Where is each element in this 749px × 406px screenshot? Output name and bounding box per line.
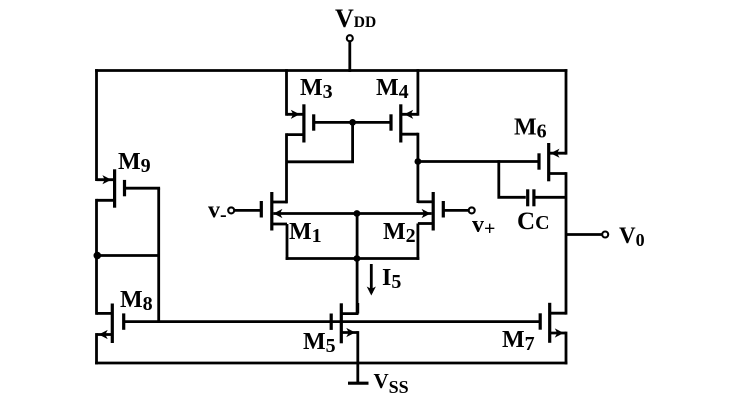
transistor M1 [260, 201, 263, 218]
svg-text:M4: M4 [376, 75, 409, 103]
svg-text:M9: M9 [118, 149, 151, 177]
transistor M4 [401, 113, 418, 116]
svg-text:M5: M5 [303, 329, 336, 357]
svg-text:v-: v- [208, 198, 227, 227]
wire CC left tap [499, 160, 526, 197]
wire M3-M4 gate line [314, 121, 391, 124]
terminal VDD [347, 35, 353, 41]
wire left rail mid [95, 199, 98, 315]
wire M4 source drop [416, 69, 419, 116]
wire left rail lower [95, 333, 98, 364]
terminal v+ [469, 207, 475, 213]
svg-text:CC: CC [517, 208, 550, 235]
junction dot left rail [94, 252, 102, 260]
transistor M2 [442, 201, 445, 218]
transistor M7 [550, 312, 566, 315]
terminal VSS bar [348, 382, 369, 385]
wire right rail lower [565, 332, 568, 365]
svg-text:M3: M3 [300, 75, 333, 103]
svg-text:v+: v+ [472, 212, 495, 240]
svg-text:VDD: VDD [335, 4, 376, 33]
transistor M6 [549, 152, 566, 155]
wire CC right lead [536, 196, 567, 199]
svg-text:V0: V0 [619, 223, 645, 250]
wire VDD stub [348, 41, 351, 72]
wire right rail upper [565, 69, 568, 155]
wire M9 gate drop [157, 188, 160, 323]
current arrow I5 [370, 264, 373, 293]
wire M1-M2 bulk line [274, 212, 432, 215]
capacitor CC [526, 189, 529, 206]
wire tail drop [356, 214, 359, 316]
transistor M9 [97, 178, 115, 181]
svg-text:I5: I5 [382, 265, 401, 293]
wire M3/M1 drain [285, 133, 288, 203]
wire M3 source drop [285, 69, 288, 116]
junction dot M4 drain [415, 158, 422, 165]
wire V0 lead [566, 233, 602, 236]
junction dot tail upper [354, 210, 361, 217]
terminal V0 [602, 232, 608, 238]
wire diff-pair source bus [286, 257, 420, 260]
transistor M5 [341, 312, 358, 315]
wire gate line to M6 [418, 160, 540, 163]
svg-text:M1: M1 [289, 219, 322, 247]
wire M3 diode tie [287, 122, 353, 161]
transistor M3 [287, 113, 304, 116]
svg-text:M2: M2 [383, 219, 416, 247]
wire left rail upper [95, 69, 98, 181]
svg-text:VSS: VSS [374, 369, 409, 397]
svg-text:M6: M6 [514, 115, 547, 143]
junction dot tail lower [354, 255, 361, 262]
junction dot M3-M4 gates [349, 119, 356, 126]
wire M9 gate-drain tie [97, 254, 159, 257]
transistor M8 [97, 312, 113, 315]
wire M4/M2 drain [416, 133, 419, 203]
wire bias gate line [124, 320, 541, 323]
wire VDD top rail [95, 69, 567, 72]
svg-text:M8: M8 [120, 287, 153, 315]
wire right rail mid [565, 172, 568, 315]
wire M5 source to VSS [356, 331, 359, 384]
wire bottom rail [95, 362, 567, 365]
terminal v- [228, 207, 234, 213]
svg-text:M7: M7 [502, 327, 535, 355]
